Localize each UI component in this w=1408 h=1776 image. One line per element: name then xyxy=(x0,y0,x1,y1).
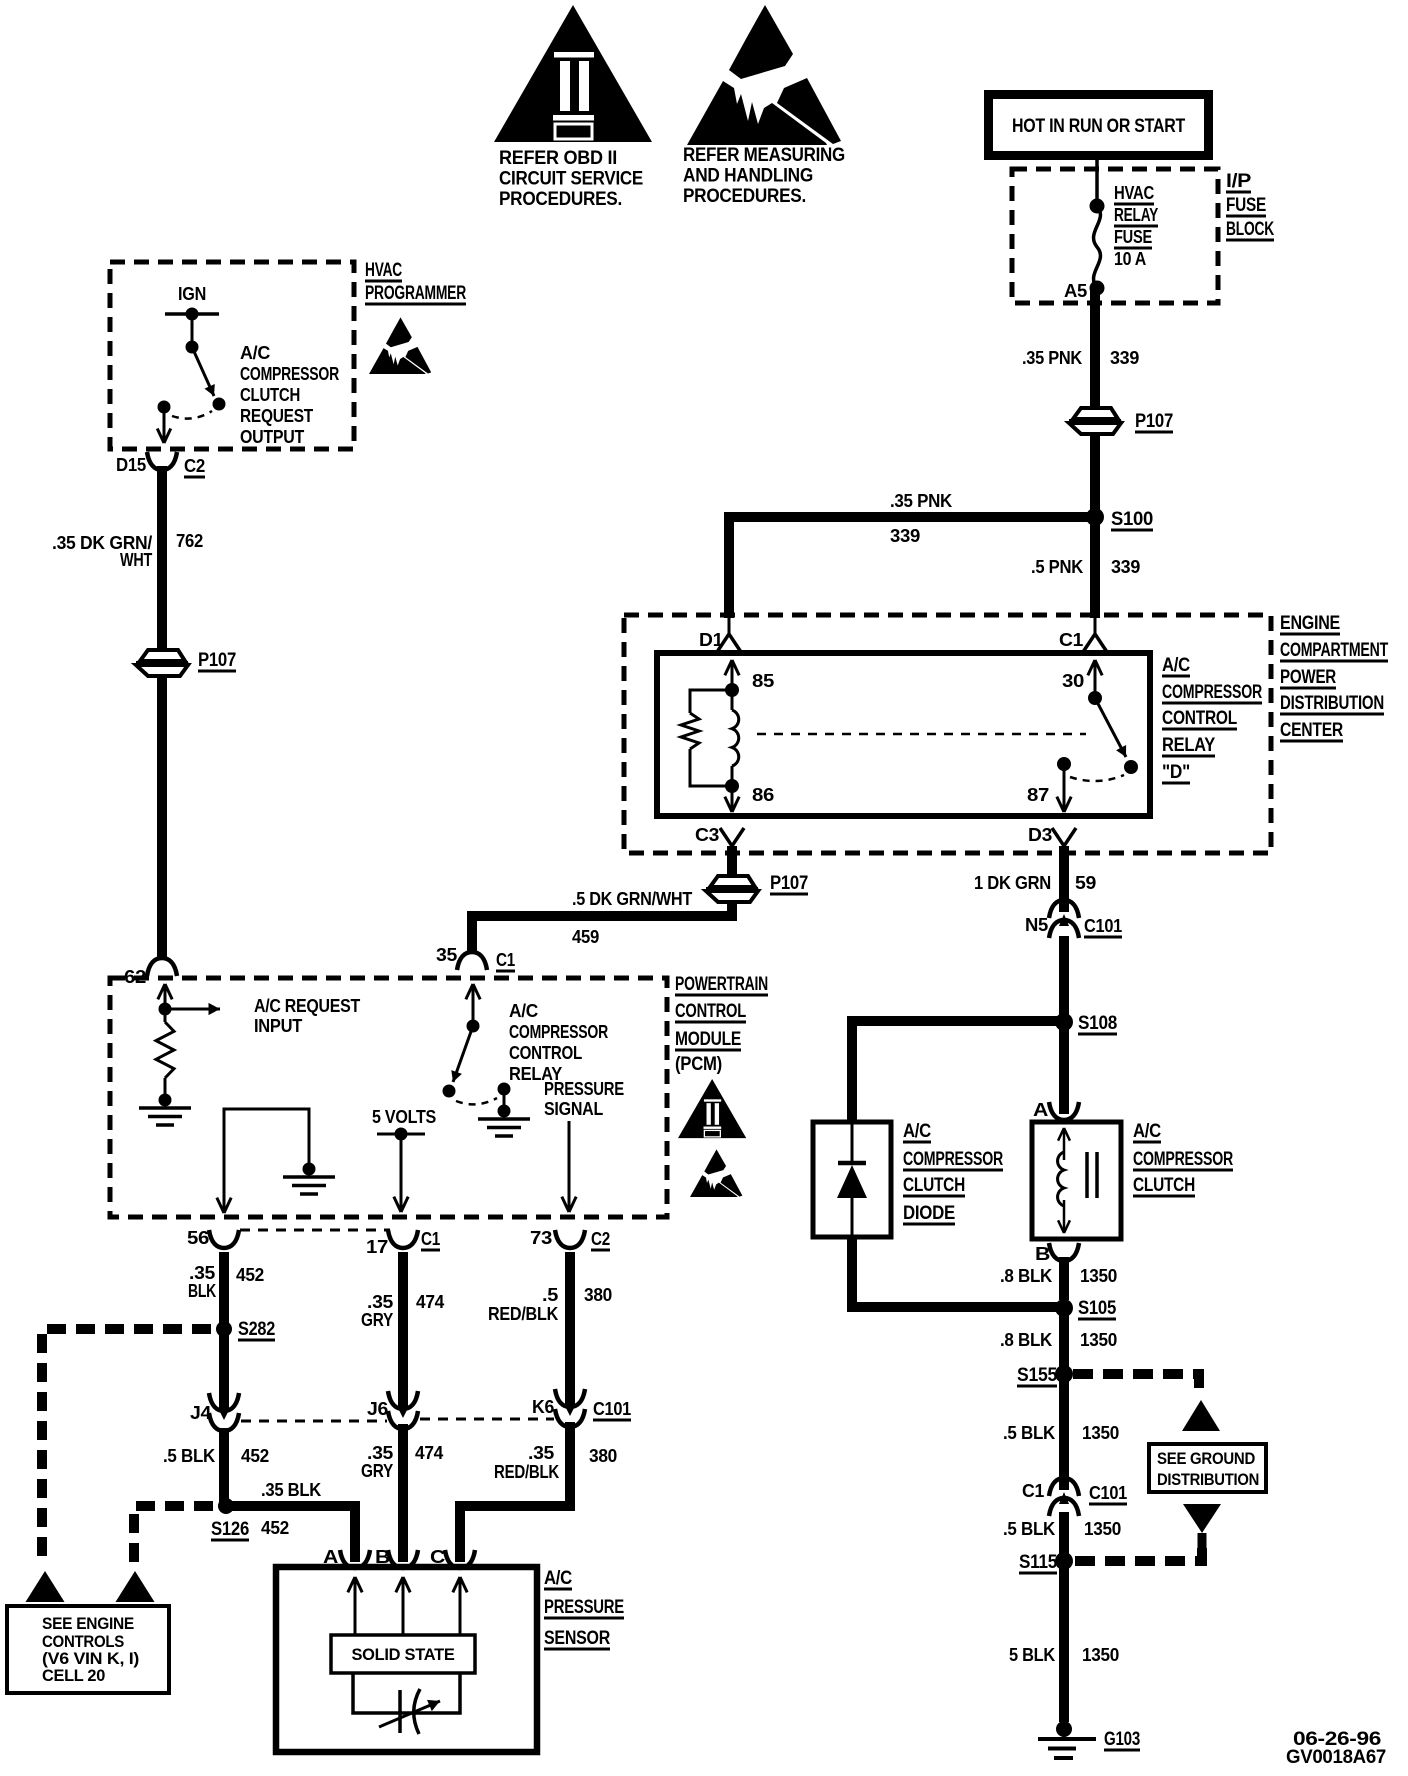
svg-text:D3: D3 xyxy=(1028,825,1052,845)
sensor element link line xyxy=(353,1673,460,1713)
svg-text:.5 DK GRN/WHT: .5 DK GRN/WHT xyxy=(572,889,692,909)
pin D1 male chevron xyxy=(717,634,741,652)
svg-text:C1: C1 xyxy=(421,1229,440,1249)
dashed wire from S155 to ground distribution xyxy=(1073,1374,1199,1398)
relay coil parallel resistor branch xyxy=(690,690,732,713)
svg-text:339: 339 xyxy=(1110,348,1139,368)
svg-text:339: 339 xyxy=(890,526,920,546)
fuse terminal node A5 xyxy=(1090,281,1105,296)
caption REFER MEASURING AND HANDLING PROCEDURES xyxy=(683,145,845,207)
svg-text:RELAY: RELAY xyxy=(1162,735,1216,756)
svg-text:.35 BLK: .35 BLK xyxy=(261,1480,321,1500)
clutch plates xyxy=(1085,1152,1089,1198)
driver switch dashed arc xyxy=(456,1098,497,1104)
svg-text:PROCEDURES.: PROCEDURES. xyxy=(499,189,622,210)
splice S100 xyxy=(1086,508,1104,526)
ignition feed line xyxy=(165,312,219,316)
svg-text:.8 BLK: .8 BLK xyxy=(1000,1266,1052,1286)
dashed wire from S282 to engine controls xyxy=(42,1329,211,1566)
diode lead top xyxy=(851,1124,854,1163)
clutch coil line with arrows xyxy=(1063,1128,1066,1160)
fuse HVAC RELAY FUSE 10A element xyxy=(1094,206,1101,288)
svg-text:56: 56 xyxy=(187,1228,209,1248)
svg-text:A/C: A/C xyxy=(1133,1121,1162,1142)
connector face dashed line J6-K6 xyxy=(420,1418,554,1421)
svg-text:SOLID STATE: SOLID STATE xyxy=(352,1645,455,1664)
I/P fuse block dashed box xyxy=(1012,169,1218,303)
wire .35 DK GRN/WHT 762 xyxy=(157,466,167,650)
off-page triangle to engine controls right xyxy=(116,1571,155,1602)
svg-text:C101: C101 xyxy=(1089,1483,1127,1503)
svg-text:85: 85 xyxy=(752,671,774,691)
svg-text:COMPRESSOR: COMPRESSOR xyxy=(1162,682,1262,703)
svg-text:I/P: I/P xyxy=(1226,171,1252,192)
svg-text:.35: .35 xyxy=(367,1292,393,1312)
A/C request input arrow right xyxy=(165,1008,220,1011)
A/C compressor clutch diode box xyxy=(813,1122,891,1237)
wire .35 BLK 452 from pin 56 xyxy=(219,1252,229,1404)
svg-text:S100: S100 xyxy=(1111,509,1153,530)
sensor pin A cup xyxy=(340,1550,370,1568)
svg-text:COMPRESSOR: COMPRESSOR xyxy=(903,1149,1003,1170)
pin 73 cup xyxy=(555,1230,585,1248)
variable capacitor arrow xyxy=(379,1701,440,1727)
svg-text:G103: G103 xyxy=(1104,1729,1140,1750)
switch pivot node xyxy=(186,341,199,354)
svg-text:REFER MEASURING: REFER MEASURING xyxy=(683,145,845,166)
svg-text:POWER: POWER xyxy=(1280,667,1336,688)
svg-text:17: 17 xyxy=(366,1237,388,1257)
ground G103 node xyxy=(1056,1721,1072,1737)
svg-text:474: 474 xyxy=(416,1292,444,1312)
svg-text:HVAC: HVAC xyxy=(1114,183,1154,203)
wire .8 BLK 1350 below S105 xyxy=(1059,1308,1069,1368)
svg-text:.35 PNK: .35 PNK xyxy=(890,491,952,511)
ESD icon in HVAC programmer xyxy=(369,317,431,374)
svg-text:5 VOLTS: 5 VOLTS xyxy=(372,1107,436,1127)
svg-text:GV0018A67: GV0018A67 xyxy=(1286,1747,1386,1768)
splice S115 xyxy=(1055,1552,1073,1570)
connector P107 top xyxy=(1073,408,1118,419)
switch contact node right xyxy=(213,398,226,411)
svg-text:N5: N5 xyxy=(1025,915,1048,935)
internal ground node xyxy=(303,1163,316,1176)
dashed wire from S126 to engine controls xyxy=(134,1506,213,1566)
coil terminal 86 node xyxy=(725,779,739,793)
off-page triangle to ground distribution top xyxy=(1182,1400,1220,1431)
svg-text:A/C: A/C xyxy=(1162,655,1191,676)
svg-text:35: 35 xyxy=(436,945,457,965)
svg-text:C3: C3 xyxy=(695,825,719,845)
svg-text:REFER OBD II: REFER OBD II xyxy=(499,148,617,169)
wire from power to fuse xyxy=(1095,160,1099,206)
svg-text:.5 BLK: .5 BLK xyxy=(163,1446,215,1466)
svg-text:PRESSURE: PRESSURE xyxy=(544,1597,624,1618)
svg-text:CLUTCH: CLUTCH xyxy=(1133,1175,1195,1196)
relay switch arm xyxy=(1095,698,1126,757)
svg-text:A5: A5 xyxy=(1064,281,1087,301)
svg-text:59: 59 xyxy=(1075,873,1096,893)
svg-text:.35: .35 xyxy=(189,1263,215,1283)
pin 35 connector cap xyxy=(457,952,487,970)
switch output node left xyxy=(158,401,171,414)
label POWERTRAIN CONTROL MODULE (PCM) xyxy=(675,974,768,1075)
label HVAC RELAY FUSE 10 A xyxy=(1114,183,1158,269)
see ground distribution box xyxy=(1149,1444,1266,1492)
relay internal dashed link xyxy=(757,733,1086,736)
svg-text:IGN: IGN xyxy=(178,284,206,304)
sensor pin B cup xyxy=(388,1550,418,1568)
connector K6 xyxy=(565,1395,575,1406)
svg-text:A: A xyxy=(1033,1100,1048,1120)
ESD icon in PCM xyxy=(690,1149,742,1197)
svg-text:30: 30 xyxy=(1062,671,1084,691)
svg-text:380: 380 xyxy=(584,1285,612,1305)
svg-text:PRESSURE: PRESSURE xyxy=(544,1079,624,1099)
A/C request input node xyxy=(159,1003,172,1016)
connector P107 left xyxy=(140,650,185,661)
svg-text:COMPARTMENT: COMPARTMENT xyxy=(1280,640,1389,661)
wire 59 to S108 xyxy=(1059,936,1069,1114)
fuse terminal node top xyxy=(1090,199,1105,214)
stub from triangle xyxy=(1198,1533,1207,1550)
svg-text:FUSE: FUSE xyxy=(1114,227,1152,247)
svg-text:C2: C2 xyxy=(591,1229,610,1249)
wire from S108 to diode xyxy=(852,1021,1064,1124)
wire .5 RED/BLK 380 from pin 73 xyxy=(565,1252,575,1398)
ground symbol in PCM middle xyxy=(283,1175,335,1179)
pin 17 cup xyxy=(388,1230,418,1248)
svg-text:452: 452 xyxy=(241,1446,269,1466)
dashed wire to S115 xyxy=(1075,1548,1202,1561)
svg-text:RED/BLK: RED/BLK xyxy=(488,1304,558,1324)
internal link pin 56 to ground xyxy=(224,1109,309,1204)
svg-text:J4: J4 xyxy=(190,1403,211,1423)
pin D3 chevron xyxy=(1052,828,1076,846)
svg-text:SIGNAL: SIGNAL xyxy=(544,1099,603,1119)
svg-text:S155: S155 xyxy=(1017,1365,1058,1386)
switch contact 87 node xyxy=(1057,757,1071,771)
label A/C REQUEST INPUT xyxy=(254,996,360,1036)
arrowhead at pin 56 internal xyxy=(223,1180,226,1213)
label ENGINE COMPARTMENT POWER DISTRIBUTION CENTER xyxy=(1280,613,1389,741)
wire 762 continues to PCM pin 62 xyxy=(157,674,167,960)
svg-text:A/C: A/C xyxy=(903,1121,932,1142)
pin 62 connector cap xyxy=(147,958,177,976)
svg-text:PROCEDURES.: PROCEDURES. xyxy=(683,186,806,207)
svg-text:CELL 20: CELL 20 xyxy=(42,1667,105,1685)
sensor pin A internal arrow xyxy=(354,1577,357,1634)
svg-text:(V6 VIN K, I): (V6 VIN K, I) xyxy=(42,1650,139,1668)
connector P107 middle xyxy=(710,876,755,887)
pin C1 male chevron xyxy=(1083,634,1107,652)
svg-text:1 DK GRN: 1 DK GRN xyxy=(974,873,1051,893)
A/C compressor control relay driver arrow up xyxy=(472,984,475,1026)
connector face dashed line J4-J6 xyxy=(241,1420,387,1423)
svg-text:452: 452 xyxy=(236,1265,264,1285)
powertrain control module dashed box xyxy=(110,978,667,1217)
diode lead bottom xyxy=(851,1198,854,1235)
svg-text:PROGRAMMER: PROGRAMMER xyxy=(365,283,466,304)
pin C3 chevron xyxy=(720,828,744,846)
wire .5 PNK 339 from P107 to S100 to relay C1 xyxy=(1090,432,1100,618)
wire .8 BLK 1350 from clutch B xyxy=(1059,1257,1069,1300)
svg-text:S282: S282 xyxy=(238,1319,275,1340)
svg-text:BLK: BLK xyxy=(188,1281,216,1301)
svg-text:OUTPUT: OUTPUT xyxy=(240,427,304,447)
switch common node 30 xyxy=(1088,691,1102,705)
svg-text:D15: D15 xyxy=(116,455,146,475)
svg-text:CENTER: CENTER xyxy=(1280,720,1343,741)
svg-text:ENGINE: ENGINE xyxy=(1280,613,1340,634)
OBD II icon in PCM xyxy=(678,1079,746,1138)
svg-text:87: 87 xyxy=(1027,785,1049,805)
svg-text:1350: 1350 xyxy=(1082,1423,1119,1443)
clutch coil winding xyxy=(1058,1152,1064,1206)
svg-text:CONTROL: CONTROL xyxy=(675,1001,747,1022)
svg-text:1350: 1350 xyxy=(1080,1330,1117,1350)
caption REFER OBD II CIRCUIT SERVICE PROCEDURES xyxy=(499,148,643,210)
wire from S126 to sensor pin A xyxy=(226,1506,355,1562)
svg-text:5 BLK: 5 BLK xyxy=(1009,1645,1055,1665)
svg-text:.35: .35 xyxy=(528,1443,554,1463)
driver contact node xyxy=(443,1085,456,1098)
OBD II warning triangle icon xyxy=(494,5,652,142)
svg-text:P107: P107 xyxy=(770,873,808,894)
svg-text:REQUEST: REQUEST xyxy=(240,406,313,426)
switch output arrow to D3 xyxy=(1063,764,1066,812)
svg-text:RELAY: RELAY xyxy=(1114,205,1158,225)
connector J6 xyxy=(398,1397,408,1408)
svg-text:CONTROLS: CONTROLS xyxy=(42,1633,124,1651)
svg-text:(PCM): (PCM) xyxy=(675,1054,722,1075)
svg-text:P107: P107 xyxy=(1135,411,1173,432)
wire .35 PNK 339 from fuse A5 xyxy=(1090,288,1100,409)
svg-text:S115: S115 xyxy=(1019,1552,1058,1573)
switch arm end node xyxy=(1124,760,1138,774)
svg-text:POWERTRAIN: POWERTRAIN xyxy=(675,974,768,995)
splice S108 xyxy=(1055,1013,1073,1031)
splice S105 xyxy=(1055,1299,1073,1317)
sensor pin C internal arrow xyxy=(459,1577,462,1634)
wire 5 BLK 1350 to ground xyxy=(1059,1561,1069,1722)
svg-text:459: 459 xyxy=(572,927,599,947)
svg-text:CONTROL: CONTROL xyxy=(509,1043,582,1063)
clutch pin A cup xyxy=(1049,1102,1079,1120)
svg-text:C1: C1 xyxy=(496,950,515,970)
relay coil input arrow from D1 xyxy=(731,660,734,690)
off-page triangle from ground distribution bottom xyxy=(1183,1504,1221,1533)
connector J4 xyxy=(219,1399,229,1410)
svg-text:SEE ENGINE: SEE ENGINE xyxy=(42,1615,134,1633)
svg-text:452: 452 xyxy=(261,1518,289,1538)
svg-text:COMPRESSOR: COMPRESSOR xyxy=(1133,1149,1233,1170)
svg-text:474: 474 xyxy=(415,1443,443,1463)
svg-text:C101: C101 xyxy=(593,1399,631,1419)
ESD handling warning triangle icon xyxy=(687,5,841,145)
A/C request input arrow up xyxy=(164,984,167,1009)
relay switch input arrow from C1 xyxy=(1094,660,1097,698)
svg-text:BLOCK: BLOCK xyxy=(1226,219,1274,240)
wire .5 BLK 1350 from S155 xyxy=(1059,1380,1069,1490)
ground G103 symbol xyxy=(1062,1729,1066,1739)
svg-text:MODULE: MODULE xyxy=(675,1029,741,1050)
svg-text:K6: K6 xyxy=(532,1397,554,1417)
clutch pin B cup xyxy=(1049,1243,1079,1261)
sensor pin C cup xyxy=(445,1550,475,1568)
svg-text:CONTROL: CONTROL xyxy=(1162,708,1238,729)
pin 56 cup xyxy=(209,1230,239,1248)
sensor pin B internal arrow xyxy=(402,1577,405,1634)
svg-text:SEE GROUND: SEE GROUND xyxy=(1157,1450,1255,1468)
label SEE ENGINE CONTROLS (V6 VIN K, I) CELL 20 xyxy=(42,1615,139,1685)
svg-text:1350: 1350 xyxy=(1082,1645,1119,1665)
svg-text:.8 BLK: .8 BLK xyxy=(1000,1330,1052,1350)
label A/C COMPRESSOR CLUTCH xyxy=(1133,1121,1233,1196)
svg-text:COMPRESSOR: COMPRESSOR xyxy=(240,364,339,384)
svg-text:.35 PNK: .35 PNK xyxy=(1022,348,1082,368)
svg-text:380: 380 xyxy=(589,1446,617,1466)
wire from diode to S105 xyxy=(852,1235,1058,1307)
svg-text:.5 BLK: .5 BLK xyxy=(1003,1423,1055,1443)
svg-text:.5: .5 xyxy=(542,1285,558,1305)
svg-text:C1: C1 xyxy=(1022,1481,1044,1501)
wire from C3 to P107 xyxy=(727,846,737,876)
svg-text:A/C REQUEST: A/C REQUEST xyxy=(254,996,360,1016)
wire .5 BLK 1350 below C101 xyxy=(1059,1512,1069,1554)
driver switch arm xyxy=(453,1026,473,1082)
variable capacitor plate left xyxy=(398,1690,402,1733)
svg-text:HVAC: HVAC xyxy=(365,260,402,281)
switch pivot line xyxy=(191,314,194,347)
5 volts supply bar xyxy=(377,1133,425,1136)
wire .35 GRY 474 from pin 17 xyxy=(398,1252,408,1400)
svg-text:.5 BLK: .5 BLK xyxy=(1003,1519,1055,1539)
svg-text:C2: C2 xyxy=(184,456,205,476)
coil terminal 85 node xyxy=(725,683,739,697)
svg-text:GRY: GRY xyxy=(361,1461,393,1481)
label HVAC PROGRAMMER xyxy=(365,260,466,304)
svg-text:RED/BLK: RED/BLK xyxy=(494,1462,559,1482)
A/C compressor clutch box xyxy=(1032,1122,1121,1239)
svg-text:CLUTCH: CLUTCH xyxy=(903,1175,965,1196)
resistor ground node xyxy=(159,1094,172,1107)
connector N5 C101 xyxy=(1049,900,1079,918)
diode bar xyxy=(838,1161,866,1166)
label PRESSURE SIGNAL xyxy=(544,1079,624,1119)
switch travel dashed arc xyxy=(172,411,212,419)
switch travel dashed arc xyxy=(1070,775,1124,781)
label A/C COMPRESSOR CONTROL RELAY in PCM xyxy=(509,1001,608,1084)
A/C request switch arm xyxy=(192,347,214,396)
engine compartment power distribution center dashed box xyxy=(624,615,1271,853)
pressure signal arrow to pin 73 xyxy=(568,1121,571,1212)
svg-text:S108: S108 xyxy=(1078,1013,1117,1034)
splice S155 xyxy=(1055,1365,1073,1383)
wire 1 DK GRN 59 from D3 xyxy=(1059,846,1069,912)
svg-text:FUSE: FUSE xyxy=(1226,195,1266,216)
svg-text:AND HANDLING: AND HANDLING xyxy=(683,166,813,187)
svg-text:C101: C101 xyxy=(1084,916,1122,936)
svg-text:S105: S105 xyxy=(1078,1298,1117,1319)
splice S126 xyxy=(218,1498,234,1514)
svg-text:339: 339 xyxy=(1111,557,1140,577)
5 volts feed arrow to pin 17 xyxy=(400,1134,403,1212)
variable capacitor plate right xyxy=(414,1689,420,1734)
svg-text:A/C: A/C xyxy=(509,1001,538,1021)
driver switch pivot node xyxy=(467,1020,480,1033)
wire .35 PNK 339 branch to relay D1 xyxy=(729,517,1091,618)
svg-text:DISTRIBUTION: DISTRIBUTION xyxy=(1157,1471,1259,1489)
svg-text:.35: .35 xyxy=(367,1443,393,1463)
svg-text:P107: P107 xyxy=(198,650,236,671)
label A/C PRESSURE SENSOR xyxy=(544,1568,624,1649)
svg-text:A/C: A/C xyxy=(240,343,270,363)
svg-text:10 A: 10 A xyxy=(1114,249,1146,269)
link to ground xyxy=(503,1089,506,1111)
svg-text:.5 PNK: .5 PNK xyxy=(1031,557,1083,577)
svg-text:INPUT: INPUT xyxy=(254,1016,302,1036)
connector C1 C101 xyxy=(1049,1478,1079,1496)
svg-text:73: 73 xyxy=(530,1228,552,1248)
svg-text:DIODE: DIODE xyxy=(903,1203,955,1224)
output arrow to pin D15 xyxy=(163,407,166,443)
coil output arrow to C3 xyxy=(731,786,734,812)
svg-text:1350: 1350 xyxy=(1084,1519,1121,1539)
ground symbol in PCM left xyxy=(139,1106,191,1110)
svg-text:S126: S126 xyxy=(211,1519,249,1540)
ground symbol at driver xyxy=(478,1117,530,1121)
HVAC programmer dashed box xyxy=(110,262,354,449)
wire .5 BLK 452 below J4 xyxy=(219,1428,229,1502)
svg-text:WHT: WHT xyxy=(120,550,152,570)
svg-text:J6: J6 xyxy=(367,1399,388,1419)
ground node xyxy=(498,1105,511,1118)
label A/C COMPRESSOR CLUTCH REQUEST OUTPUT xyxy=(240,343,339,447)
svg-text:SENSOR: SENSOR xyxy=(544,1628,610,1649)
label I/P FUSE BLOCK xyxy=(1226,171,1274,240)
svg-text:DISTRIBUTION: DISTRIBUTION xyxy=(1280,693,1384,714)
see engine controls box xyxy=(7,1606,169,1693)
svg-text:C1: C1 xyxy=(1059,630,1083,650)
svg-text:1350: 1350 xyxy=(1080,1266,1117,1286)
diode triangle xyxy=(837,1165,867,1198)
driver ground contact node xyxy=(498,1083,511,1096)
wire .35 RED/BLK 380 below K6 xyxy=(460,1422,570,1562)
pull-up resistor xyxy=(164,1009,167,1022)
svg-text:A/C: A/C xyxy=(544,1568,573,1589)
label A/C COMPRESSOR CLUTCH DIODE xyxy=(903,1121,1003,1224)
solid state box xyxy=(331,1635,475,1673)
relay coil winding xyxy=(731,690,734,710)
A/C pressure sensor box xyxy=(276,1567,537,1752)
node on IGN line xyxy=(186,308,199,321)
svg-text:CIRCUIT SERVICE: CIRCUIT SERVICE xyxy=(499,169,643,190)
power source box HOT IN RUN OR START xyxy=(984,90,1213,160)
pin D15 connector cup xyxy=(147,452,177,470)
A/C compressor control relay box xyxy=(657,653,1150,816)
relay label A/C COMPRESSOR CONTROL RELAY "D" xyxy=(1162,655,1262,783)
svg-text:86: 86 xyxy=(752,785,774,805)
splice S282 xyxy=(216,1321,232,1337)
svg-text:762: 762 xyxy=(176,531,203,551)
svg-text:GRY: GRY xyxy=(361,1310,393,1330)
off-page triangle to engine controls left xyxy=(26,1571,65,1602)
svg-text:"D": "D" xyxy=(1162,762,1190,783)
wire .35 GRY 474 below J6 xyxy=(398,1424,408,1562)
svg-text:COMPRESSOR: COMPRESSOR xyxy=(509,1022,608,1042)
label SEE GROUND DISTRIBUTION xyxy=(1157,1450,1259,1489)
